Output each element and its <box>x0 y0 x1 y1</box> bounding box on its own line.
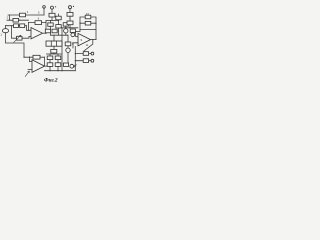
node fb3 <box>29 57 30 58</box>
frame mid wire <box>80 22 96 24</box>
resistor R22 <box>65 42 71 46</box>
resistor R27 <box>83 59 88 63</box>
switch wire <box>84 40 93 54</box>
resistor R20 <box>67 13 73 17</box>
wire bus to fb node <box>45 20 47 22</box>
node A1 out <box>45 33 46 34</box>
wire x68 upper <box>67 35 69 42</box>
node fb1 left <box>28 22 29 23</box>
resistor R25 <box>70 29 75 32</box>
resistor R3 <box>14 24 19 28</box>
svg-text:10: 10 <box>86 12 90 16</box>
cluster top bus <box>47 53 62 55</box>
wire matrix top <box>53 35 55 41</box>
wire A2 lower input <box>73 43 78 48</box>
node t2 <box>69 18 70 19</box>
resistor R12 <box>63 23 68 26</box>
resistor R11 <box>56 16 61 20</box>
output row 2 <box>75 60 91 62</box>
node frame left <box>79 23 80 24</box>
resistor R2 <box>13 18 19 22</box>
right column vertical <box>74 47 76 71</box>
op-amp A2 <box>78 33 91 45</box>
wire T2 down <box>69 9 71 13</box>
bottom bus <box>45 70 76 72</box>
wire frame to A2 input <box>76 29 81 36</box>
wire source down <box>6 33 25 58</box>
arrow input A3 <box>25 71 29 76</box>
wire branch x11 <box>12 26 17 39</box>
resistor R19 <box>33 55 40 59</box>
wire mid bus <box>46 19 59 21</box>
resistor R21 <box>67 21 73 25</box>
wire fb down <box>45 23 47 34</box>
node j1 <box>19 20 20 21</box>
resistor R15 <box>55 56 61 60</box>
resistor R10 <box>52 29 57 33</box>
wire top bus left <box>8 14 44 16</box>
node rbus <box>69 27 70 28</box>
wire upper input A1 <box>27 26 32 31</box>
wire frame fb down <box>95 29 97 39</box>
op-amp A3 <box>32 60 45 73</box>
wire A2 out <box>91 39 97 41</box>
wire t2 mid <box>69 16 71 21</box>
terminal T3 <box>91 52 94 55</box>
wire bus three <box>6 25 27 27</box>
wire fb3 down <box>30 57 33 61</box>
resistor R7 <box>49 13 55 17</box>
output row 1 <box>75 53 91 55</box>
terminal T0 <box>43 6 46 9</box>
node A3 out <box>44 66 45 67</box>
feedback A3 <box>24 56 45 58</box>
resistor R14 <box>47 56 53 60</box>
wire cluster v2 <box>57 54 59 71</box>
resistor R23 top of frame <box>85 15 91 19</box>
wire R7 to bus <box>51 17 53 20</box>
ground mark <box>73 65 76 68</box>
terminal T4 <box>91 59 94 62</box>
wire c4 links <box>67 46 69 63</box>
node A2 out <box>92 39 93 40</box>
wire R5 to A1 <box>22 36 31 38</box>
node bus dots <box>49 70 50 71</box>
wire A1 output <box>43 32 47 34</box>
resistor R9 <box>45 29 50 33</box>
wire T1 down <box>51 9 53 13</box>
resistor R4 <box>20 24 25 28</box>
node frame right <box>95 23 96 24</box>
circle element C3 <box>70 64 74 68</box>
wire cluster v1 <box>49 54 51 71</box>
resistor R28 <box>56 25 61 28</box>
circle element C4 <box>66 48 70 52</box>
right bus y27.8 <box>62 27 78 29</box>
wire fb3 right <box>44 57 46 66</box>
wire matrix bottom <box>53 46 55 49</box>
node r11 <box>58 20 59 21</box>
wire to source <box>5 26 7 29</box>
node mid row <box>58 30 59 31</box>
frame network box <box>80 17 96 29</box>
resistor R6 <box>35 21 42 25</box>
wire x62 vertical <box>61 28 63 71</box>
wire t2 to bus <box>69 25 71 28</box>
terminal T1 <box>51 6 54 9</box>
op-amp A1 <box>31 28 43 39</box>
resistor R1 <box>20 13 26 17</box>
terminal T2 <box>69 6 72 9</box>
circle element C2 <box>64 29 68 33</box>
wire A1 feedback <box>29 23 47 31</box>
resistor R13 <box>51 49 57 53</box>
wire c3 stub <box>74 65 76 67</box>
wire A3 lower input <box>28 68 32 70</box>
wire bus two <box>7 19 29 21</box>
matrix box row <box>46 41 62 46</box>
wire c2 links <box>65 26 67 35</box>
wire R8 drop <box>50 20 52 29</box>
wire h35 <box>51 34 69 36</box>
wire x44 up <box>43 8 45 15</box>
svg-text:Фиг.2: Фиг.2 <box>44 78 58 84</box>
wire x58 vertical <box>58 14 60 35</box>
resistor R26 <box>83 52 88 56</box>
resistor R8 <box>48 23 53 26</box>
node stub 2 <box>9 15 11 20</box>
wire A3 out <box>45 65 48 67</box>
variable resistor R5 <box>17 36 23 40</box>
resistor R16 <box>47 63 53 67</box>
resistor R17 <box>55 63 61 67</box>
circle element C5 <box>71 33 75 37</box>
wire h35 drop <box>50 33 52 35</box>
source BQ1 ellipse <box>2 29 8 33</box>
resistor R24 mid of frame <box>85 21 91 25</box>
resistor R18 <box>63 63 68 66</box>
wire r13 to cluster <box>53 53 55 54</box>
